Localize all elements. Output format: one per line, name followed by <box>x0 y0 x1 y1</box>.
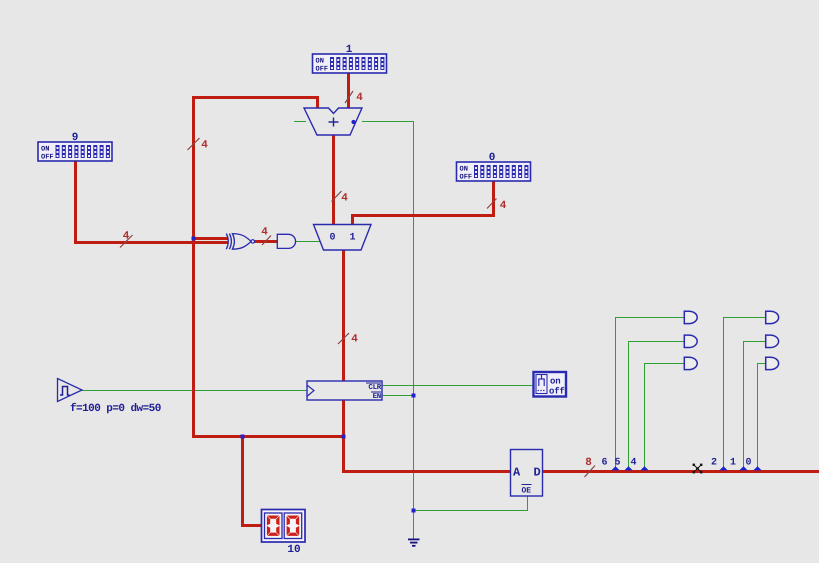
wire mux in1 drop <box>351 214 354 226</box>
svg-text:9: 9 <box>72 132 79 144</box>
svg-text:4: 4 <box>201 140 208 152</box>
bus tap connector <box>640 466 648 470</box>
svg-text:4: 4 <box>341 193 348 205</box>
wire bus bit6 vertical <box>615 317 616 471</box>
junction dot <box>412 509 416 513</box>
svg-text:A: A <box>513 466 521 480</box>
indicator gate <box>766 357 779 369</box>
wire register CLR to on-off switch <box>382 385 533 386</box>
wire register out down <box>342 400 345 438</box>
wire carry-out vertical to ground <box>413 121 414 540</box>
svg-text:ON: ON <box>316 58 324 66</box>
svg-text:1: 1 <box>346 44 353 56</box>
svg-text:4: 4 <box>500 200 507 212</box>
bus tap connector <box>611 466 619 470</box>
bus width label 4 <box>487 199 507 213</box>
svg-text:5: 5 <box>614 458 620 469</box>
svg-text:1: 1 <box>349 233 355 244</box>
svg-text:ON: ON <box>460 166 468 174</box>
junction dot <box>342 435 346 439</box>
and gate U4 <box>277 234 295 248</box>
wire bus bit5 horizontal <box>628 341 684 342</box>
bus tap connector <box>719 466 727 470</box>
bus width label 8 <box>585 457 596 477</box>
wire dip0 vertical <box>492 181 495 217</box>
dip switch bank (value 1) <box>313 44 387 74</box>
svg-text:2: 2 <box>711 458 717 469</box>
wire adder carry-out horizontal <box>362 121 414 122</box>
svg-text:EN: EN <box>373 393 381 401</box>
svg-text:D: D <box>534 466 541 480</box>
svg-text:0: 0 <box>329 233 335 244</box>
svg-text:4: 4 <box>630 458 636 469</box>
svg-text:on: on <box>550 377 560 387</box>
wire bus bit2 vertical <box>723 317 724 471</box>
wire bus bit2 horizontal <box>723 317 766 318</box>
wire bus bit4 horizontal <box>644 363 684 364</box>
wire bus bit4 vertical <box>644 363 645 471</box>
wire down to bus <box>342 435 345 473</box>
indicator gate <box>684 357 697 369</box>
wire feedback vertical <box>192 96 195 438</box>
svg-text:10: 10 <box>287 544 300 556</box>
bus tap connector <box>624 466 632 470</box>
wire bus bit6 horizontal <box>615 317 684 318</box>
bus width label 4 <box>345 91 363 104</box>
svg-text:0: 0 <box>745 458 751 469</box>
wire bus bit1 horizontal <box>743 341 766 342</box>
wire dip1 to adder input B <box>347 73 350 109</box>
ground <box>408 539 420 547</box>
wire adder carry-in stub <box>294 121 306 122</box>
wire AND output to mux select <box>295 241 320 242</box>
wire bus bit0 horizontal <box>757 363 766 364</box>
adder U1 <box>304 108 362 135</box>
svg-text:4: 4 <box>351 334 358 346</box>
svg-text:OFF: OFF <box>41 154 54 162</box>
svg-text:OFF: OFF <box>460 174 473 182</box>
svg-text:OFF: OFF <box>316 66 329 74</box>
wire feedback top horizontal <box>192 96 319 99</box>
svg-text:off: off <box>549 387 565 397</box>
junction dot <box>241 435 245 439</box>
wire to 7seg vertical <box>241 435 244 526</box>
wire dip9 to xnor lower input <box>74 241 228 244</box>
bus segment left <box>342 470 511 473</box>
bus driver U6 <box>511 450 543 497</box>
bus width label 4 <box>188 138 209 152</box>
bus width label 4 <box>120 231 133 248</box>
wire adder input A drop <box>316 96 319 109</box>
wire dip0 horizontal <box>351 214 494 217</box>
indicator gate <box>766 311 779 323</box>
node labels bus bits <box>601 458 751 469</box>
junction dot <box>192 237 196 241</box>
indicator gate <box>766 335 779 347</box>
probe marker X <box>693 464 703 474</box>
indicator gate <box>684 335 697 347</box>
wire ground net to OE <box>413 510 528 511</box>
svg-text:0: 0 <box>489 152 496 164</box>
bus tap connector <box>753 466 761 470</box>
indicator gate <box>684 311 697 323</box>
wire clock to register clk <box>82 390 307 391</box>
seven segment display DS1 (value 10) <box>262 510 306 557</box>
wire xnor to and <box>253 240 278 243</box>
bus tap connector <box>739 466 747 470</box>
svg-text:6: 6 <box>601 458 607 469</box>
wire adder out to mux in0 <box>332 135 335 226</box>
bus width label 4 <box>261 227 271 246</box>
wire OE vertical stub <box>527 496 528 510</box>
clock source CLK <box>58 379 161 416</box>
register U5 <box>307 381 382 401</box>
svg-text:4: 4 <box>261 227 268 239</box>
dip switch bank (value 0) <box>457 152 531 182</box>
dip switch bank (value 9) <box>38 132 112 162</box>
junction dot <box>412 394 416 398</box>
wire dip9 vertical <box>74 161 77 244</box>
toggle switch SW (on/off) <box>534 372 567 397</box>
bus segment right <box>542 470 819 473</box>
svg-text:4: 4 <box>356 92 363 104</box>
wire to 7seg horizontal <box>241 524 262 527</box>
svg-text:ON: ON <box>41 146 49 154</box>
xnor gate U3 <box>226 234 254 250</box>
wire bus bit1 vertical <box>743 341 744 471</box>
multiplexer U2 <box>314 225 372 251</box>
wire register EN to net <box>382 395 414 396</box>
wire bus bit0 vertical <box>757 363 758 471</box>
svg-text:1: 1 <box>730 458 736 469</box>
wire mux out to register <box>342 250 345 382</box>
svg-text:OE: OE <box>522 487 532 496</box>
svg-text:8: 8 <box>585 457 592 469</box>
bus width label 4 <box>332 191 349 205</box>
wire bottom horizontal <box>192 435 345 438</box>
svg-text:CLR: CLR <box>368 383 381 392</box>
svg-text:f=100 p=0 dw=50: f=100 p=0 dw=50 <box>70 402 161 415</box>
wire bus bit5 vertical <box>628 341 629 471</box>
svg-text:4: 4 <box>123 231 130 243</box>
wire feedback to xnor upper input <box>192 237 228 240</box>
bus width label 4 <box>338 333 358 346</box>
